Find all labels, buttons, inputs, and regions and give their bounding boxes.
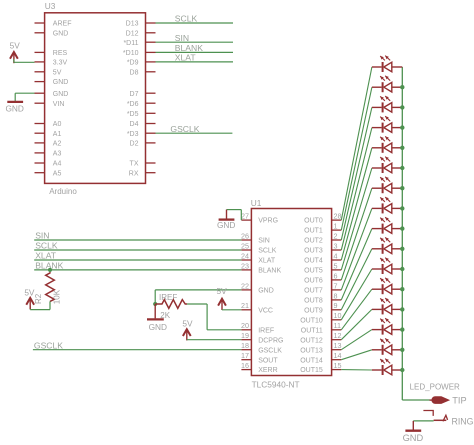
svg-text:OUT4: OUT4 — [304, 258, 323, 265]
svg-text:GSCLK: GSCLK — [258, 347, 282, 354]
svg-text:TX: TX — [130, 161, 139, 168]
svg-text:SIN: SIN — [258, 238, 270, 245]
svg-text:SOUT: SOUT — [258, 357, 278, 364]
svg-text:D13: D13 — [126, 21, 139, 28]
svg-text:D8: D8 — [130, 69, 139, 76]
svg-text:OUT1: OUT1 — [304, 228, 323, 235]
svg-text:OUT0: OUT0 — [304, 218, 323, 225]
svg-text:GND: GND — [5, 103, 23, 113]
svg-text:*D6: *D6 — [127, 101, 139, 108]
svg-text:6: 6 — [334, 271, 338, 280]
svg-text:GND: GND — [53, 79, 69, 86]
svg-text:18: 18 — [241, 341, 249, 350]
svg-text:TIP: TIP — [452, 396, 466, 406]
svg-text:5V: 5V — [217, 286, 228, 296]
svg-text:14: 14 — [334, 351, 342, 360]
svg-text:26: 26 — [241, 231, 249, 240]
svg-text:GND: GND — [149, 322, 167, 332]
svg-text:23: 23 — [241, 261, 249, 270]
svg-text:*D11: *D11 — [123, 40, 138, 47]
svg-text:20: 20 — [241, 321, 249, 330]
svg-text:A1: A1 — [53, 131, 62, 138]
svg-text:10: 10 — [334, 311, 342, 320]
svg-text:2: 2 — [334, 231, 338, 240]
svg-text:SCLK: SCLK — [35, 241, 58, 251]
svg-text:5V: 5V — [182, 318, 193, 328]
svg-text:XLAT: XLAT — [175, 53, 197, 63]
svg-text:GND: GND — [217, 220, 235, 230]
svg-text:D12: D12 — [126, 30, 139, 37]
svg-text:5V: 5V — [10, 41, 21, 51]
svg-text:XERR: XERR — [258, 367, 277, 374]
svg-text:OUT8: OUT8 — [304, 298, 323, 305]
svg-text:VCC: VCC — [258, 307, 273, 314]
svg-text:A4: A4 — [53, 161, 62, 168]
svg-text:15: 15 — [334, 361, 342, 370]
svg-text:OUT7: OUT7 — [304, 288, 323, 295]
svg-text:TLC5940-NT: TLC5940-NT — [252, 380, 300, 390]
svg-text:D2: D2 — [130, 141, 139, 148]
svg-text:27: 27 — [241, 212, 249, 221]
svg-text:A3: A3 — [53, 151, 62, 158]
svg-text:GSCLK: GSCLK — [170, 124, 199, 134]
svg-text:25: 25 — [241, 241, 249, 250]
svg-text:A5: A5 — [53, 170, 62, 177]
svg-text:GND: GND — [403, 433, 424, 443]
svg-text:OUT3: OUT3 — [304, 248, 323, 255]
svg-text:GSCLK: GSCLK — [34, 340, 63, 350]
svg-text:XLAT: XLAT — [258, 258, 276, 265]
svg-text:OUT13: OUT13 — [300, 347, 323, 354]
svg-text:*D9: *D9 — [127, 60, 139, 67]
svg-text:5V: 5V — [53, 69, 62, 76]
svg-text:DCPRG: DCPRG — [258, 337, 283, 344]
svg-text:R2: R2 — [34, 293, 43, 304]
svg-text:OUT6: OUT6 — [304, 278, 323, 285]
svg-text:12: 12 — [334, 331, 342, 340]
svg-text:U1: U1 — [251, 198, 262, 208]
svg-text:OUT9: OUT9 — [304, 307, 323, 314]
svg-text:A0: A0 — [53, 121, 62, 128]
svg-text:8: 8 — [334, 291, 338, 300]
svg-text:LED_POWER: LED_POWER — [410, 383, 460, 392]
svg-text:OUT15: OUT15 — [300, 367, 323, 374]
svg-text:11: 11 — [334, 321, 341, 330]
svg-text:OUT10: OUT10 — [300, 317, 323, 324]
svg-text:28: 28 — [334, 212, 342, 221]
svg-text:OUT14: OUT14 — [300, 357, 323, 364]
svg-text:SIN: SIN — [35, 231, 49, 241]
svg-text:VIN: VIN — [53, 101, 65, 108]
svg-text:24: 24 — [241, 251, 249, 260]
svg-text:7: 7 — [334, 281, 338, 290]
svg-text:GND: GND — [258, 288, 274, 295]
svg-text:10K: 10K — [53, 289, 62, 304]
svg-text:D7: D7 — [130, 91, 139, 98]
svg-text:VPRG: VPRG — [258, 218, 278, 225]
svg-text:RES: RES — [53, 50, 68, 57]
svg-text:22: 22 — [241, 281, 249, 290]
svg-text:13: 13 — [334, 341, 342, 350]
svg-text:17: 17 — [241, 351, 249, 360]
svg-text:D4: D4 — [130, 121, 139, 128]
svg-text:U3: U3 — [45, 1, 56, 11]
svg-text:XLAT: XLAT — [35, 251, 57, 261]
svg-text:Arduino: Arduino — [49, 187, 77, 196]
svg-text:BLANK: BLANK — [175, 43, 203, 53]
svg-text:BLANK: BLANK — [258, 268, 281, 275]
svg-text:9: 9 — [334, 301, 338, 310]
svg-text:3: 3 — [334, 241, 338, 250]
svg-text:4: 4 — [334, 251, 338, 260]
svg-text:3.3V: 3.3V — [53, 60, 68, 67]
svg-text:IREF: IREF — [258, 327, 274, 334]
svg-text:19: 19 — [241, 331, 249, 340]
svg-text:*D3: *D3 — [127, 131, 139, 138]
svg-text:GND: GND — [53, 91, 69, 98]
svg-text:OUT11: OUT11 — [301, 327, 323, 334]
svg-text:*D10: *D10 — [123, 50, 139, 57]
svg-text:AREF: AREF — [53, 21, 72, 28]
svg-text:5: 5 — [334, 261, 338, 270]
svg-text:1: 1 — [334, 222, 338, 231]
svg-text:OUT2: OUT2 — [304, 238, 323, 245]
svg-text:RING: RING — [452, 417, 474, 427]
svg-text:21: 21 — [241, 301, 249, 310]
svg-text:RX: RX — [129, 170, 139, 177]
svg-text:OUT12: OUT12 — [300, 337, 323, 344]
svg-text:16: 16 — [241, 361, 249, 370]
svg-text:SCLK: SCLK — [258, 248, 277, 255]
svg-text:GND: GND — [53, 30, 69, 37]
svg-text:A2: A2 — [53, 141, 62, 148]
svg-text:OUT5: OUT5 — [304, 268, 323, 275]
svg-text:SIN: SIN — [175, 33, 189, 43]
svg-text:*D5: *D5 — [127, 111, 139, 118]
svg-text:SCLK: SCLK — [175, 14, 198, 24]
